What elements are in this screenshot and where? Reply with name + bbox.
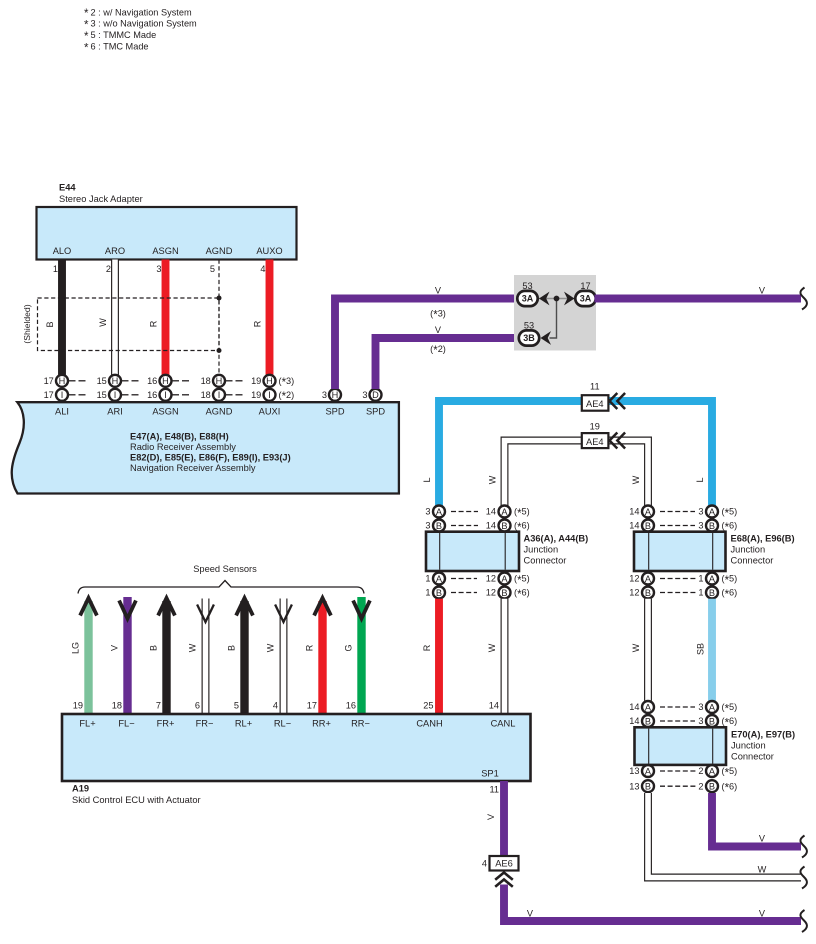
wire break mark bbox=[800, 910, 807, 932]
brace over speed sensor wires bbox=[78, 581, 364, 594]
arrow up on RL+ bbox=[236, 598, 253, 616]
wire R speed sensor RR+ bbox=[318, 601, 326, 714]
svg-text:A: A bbox=[645, 574, 652, 584]
svg-text:Connector: Connector bbox=[731, 752, 774, 762]
connector AE6 box bbox=[490, 856, 519, 871]
svg-text:13: 13 bbox=[629, 781, 639, 791]
dashed link bbox=[660, 525, 695, 527]
svg-text:W: W bbox=[98, 318, 108, 327]
wire L blue loop to AE4 11 bbox=[439, 401, 712, 506]
svg-text:Junction: Junction bbox=[731, 545, 766, 555]
svg-text:B: B bbox=[45, 321, 55, 327]
svg-text:*: * bbox=[84, 31, 89, 43]
svg-text:H: H bbox=[59, 376, 66, 386]
svg-text:V: V bbox=[110, 645, 120, 651]
svg-text:Navigation Receiver Assembly: Navigation Receiver Assembly bbox=[130, 463, 256, 473]
svg-text:A: A bbox=[709, 702, 716, 712]
svg-text:B: B bbox=[436, 521, 442, 531]
svg-text:A19: A19 bbox=[72, 784, 89, 794]
wire LG speed sensor FL+ bbox=[84, 601, 92, 714]
svg-text:RL+: RL+ bbox=[235, 719, 252, 729]
svg-text:1: 1 bbox=[698, 588, 703, 598]
svg-text:2: 2 bbox=[106, 264, 111, 274]
svg-text:14: 14 bbox=[489, 701, 499, 711]
wire break mark bbox=[800, 867, 807, 889]
svg-text:FR+: FR+ bbox=[157, 719, 175, 729]
svg-text:AE4: AE4 bbox=[586, 399, 604, 409]
junction dot shield top bbox=[217, 296, 222, 301]
svg-text:Junction: Junction bbox=[524, 545, 559, 555]
dashed link bbox=[660, 578, 698, 580]
dashed link H row bbox=[69, 380, 76, 382]
connector AE4 no.11 box bbox=[582, 395, 609, 411]
svg-text:3: 3 bbox=[698, 702, 703, 712]
svg-text:W: W bbox=[487, 643, 497, 652]
svg-text:15: 15 bbox=[97, 376, 107, 386]
arrow down on FR− bbox=[197, 605, 214, 623]
dashed link I row bbox=[122, 394, 129, 396]
svg-text:I: I bbox=[268, 390, 271, 400]
connector AE4 no.19 box bbox=[582, 433, 609, 448]
svg-text:12: 12 bbox=[629, 574, 639, 584]
svg-text:E47(A), E48(B), E88(H): E47(A), E48(B), E88(H) bbox=[130, 432, 229, 442]
dashed link I row bbox=[172, 394, 179, 396]
svg-text:7: 7 bbox=[156, 701, 161, 711]
svg-text:FR−: FR− bbox=[196, 719, 214, 729]
wire B speed sensor FR+ bbox=[162, 601, 170, 714]
wire SB skyblue E68 to E70 bbox=[708, 599, 716, 701]
connector oval 3A left bbox=[517, 291, 537, 306]
dashed link bbox=[451, 578, 477, 580]
svg-text:V: V bbox=[759, 909, 766, 919]
wire W white E70 to right edge bbox=[648, 793, 801, 878]
svg-text:17: 17 bbox=[44, 376, 54, 386]
svg-text:B: B bbox=[501, 588, 507, 598]
svg-text:A: A bbox=[436, 507, 443, 517]
svg-text:D: D bbox=[372, 390, 379, 400]
svg-text:A36(A), A44(B): A36(A), A44(B) bbox=[524, 534, 589, 544]
svg-text:17: 17 bbox=[307, 701, 317, 711]
svg-text:I: I bbox=[114, 390, 117, 400]
svg-text:3: 3 bbox=[362, 390, 367, 400]
dashed link bbox=[451, 511, 478, 513]
arrow up on FL+ bbox=[80, 598, 97, 616]
wire break mark bbox=[800, 288, 807, 310]
component E44 Stereo Jack Adapter box bbox=[37, 207, 297, 260]
svg-text:V: V bbox=[486, 814, 496, 820]
wire R red AUXO bbox=[266, 260, 274, 375]
svg-text:14: 14 bbox=[486, 521, 496, 531]
svg-text:Speed Sensors: Speed Sensors bbox=[193, 564, 257, 574]
svg-text:3A: 3A bbox=[522, 294, 534, 304]
svg-text:H: H bbox=[112, 376, 119, 386]
junction dot shield bottom bbox=[217, 348, 222, 353]
dashed link I row bbox=[69, 394, 76, 396]
svg-text:W: W bbox=[188, 643, 198, 652]
svg-text:I: I bbox=[218, 390, 221, 400]
svg-text:ARO: ARO bbox=[105, 246, 125, 256]
svg-text:18: 18 bbox=[112, 701, 122, 711]
svg-text:L: L bbox=[422, 477, 432, 482]
svg-text:14: 14 bbox=[486, 507, 496, 517]
svg-text:B: B bbox=[149, 645, 159, 651]
splice arrow into right 3A bbox=[564, 292, 575, 306]
dashed link H row bbox=[172, 380, 179, 382]
splice thin link lines bbox=[537, 298, 576, 300]
svg-text:12: 12 bbox=[629, 588, 639, 598]
wire B speed sensor RL+ bbox=[240, 601, 248, 714]
svg-text:2: 2 bbox=[698, 781, 703, 791]
svg-text:6: 6 bbox=[195, 701, 200, 711]
svg-text:1: 1 bbox=[53, 264, 58, 274]
svg-text:4: 4 bbox=[260, 264, 265, 274]
splice junction dot bbox=[554, 296, 560, 302]
svg-text:Connector: Connector bbox=[731, 556, 774, 566]
svg-text:Junction: Junction bbox=[731, 741, 766, 751]
svg-text:V: V bbox=[527, 909, 534, 919]
svg-text:Connector: Connector bbox=[524, 556, 567, 566]
wire W white ARO bbox=[111, 260, 119, 375]
svg-text:*: * bbox=[84, 42, 89, 54]
wire break mark bbox=[800, 836, 807, 858]
svg-text:AUXI: AUXI bbox=[259, 407, 281, 417]
svg-text:3: 3 bbox=[425, 507, 430, 517]
dashed link H row bbox=[226, 380, 233, 382]
svg-text:3: 3 bbox=[698, 521, 703, 531]
wire V purple E70 to right edge bbox=[712, 793, 801, 847]
svg-text:4: 4 bbox=[273, 701, 278, 711]
svg-text:3B: 3B bbox=[523, 333, 535, 343]
connector oval 3A right bbox=[575, 291, 595, 306]
svg-text:13: 13 bbox=[629, 766, 639, 776]
svg-text:53: 53 bbox=[524, 321, 534, 331]
svg-text:2 : w/ Navigation System: 2 : w/ Navigation System bbox=[91, 7, 192, 17]
svg-text:CANL: CANL bbox=[491, 719, 516, 729]
svg-text:5: 5 bbox=[234, 701, 239, 711]
svg-text:16: 16 bbox=[147, 390, 157, 400]
component A19 Skid Control ECU box bbox=[62, 714, 531, 781]
svg-text:14: 14 bbox=[629, 507, 639, 517]
wire W white A36 to CANL bbox=[501, 599, 509, 714]
dashed link bbox=[451, 525, 478, 527]
arrow up on FR+ bbox=[158, 598, 175, 616]
component E68 junction connector box bbox=[634, 532, 726, 571]
svg-text:A: A bbox=[645, 766, 652, 776]
wire G speed sensor RR− bbox=[357, 597, 365, 714]
svg-text:E82(D), E85(E), E86(F), E89(I): E82(D), E85(E), E86(F), E89(I), E93(J) bbox=[130, 453, 291, 463]
wire R red ASGN bbox=[162, 260, 170, 375]
svg-text:6 : TMC Made: 6 : TMC Made bbox=[91, 41, 149, 51]
svg-text:B: B bbox=[501, 521, 507, 531]
svg-text:B: B bbox=[645, 521, 651, 531]
svg-text:B: B bbox=[709, 716, 715, 726]
svg-text:W: W bbox=[266, 643, 276, 652]
component A36 junction connector box bbox=[426, 532, 519, 571]
svg-text:3: 3 bbox=[698, 716, 703, 726]
svg-text:19: 19 bbox=[251, 376, 261, 386]
svg-text:19: 19 bbox=[590, 422, 600, 432]
svg-text:18: 18 bbox=[201, 376, 211, 386]
svg-text:SPD: SPD bbox=[366, 407, 385, 417]
chevrons AE4 11 bbox=[610, 393, 618, 409]
svg-text:Skid Control ECU with Actuator: Skid Control ECU with Actuator bbox=[72, 795, 201, 805]
svg-text:RL−: RL− bbox=[274, 719, 291, 729]
wire W speed sensor RL− bbox=[280, 599, 288, 715]
svg-text:19: 19 bbox=[73, 701, 83, 711]
svg-text:A: A bbox=[709, 507, 716, 517]
dashed link bbox=[660, 592, 698, 594]
svg-text:17: 17 bbox=[44, 390, 54, 400]
svg-text:W: W bbox=[758, 865, 767, 875]
svg-text:SPD: SPD bbox=[325, 407, 344, 417]
svg-text:*: * bbox=[84, 20, 89, 32]
dashed link bbox=[660, 770, 698, 772]
junction splice block gray box bbox=[514, 275, 596, 351]
svg-text:A: A bbox=[709, 766, 716, 776]
dashed link bbox=[660, 706, 695, 708]
wire V purple SP1 down bbox=[500, 781, 508, 856]
svg-text:V: V bbox=[435, 286, 442, 296]
svg-text:RR+: RR+ bbox=[312, 719, 331, 729]
svg-text:A: A bbox=[709, 574, 716, 584]
svg-text:11: 11 bbox=[489, 785, 499, 795]
wire V purple SPD H to junction 3A bbox=[335, 299, 518, 390]
svg-text:ALO: ALO bbox=[53, 246, 72, 256]
svg-text:E68(A), E96(B): E68(A), E96(B) bbox=[731, 534, 795, 544]
svg-text:1: 1 bbox=[425, 574, 430, 584]
svg-text:5: 5 bbox=[210, 264, 215, 274]
svg-text:A: A bbox=[645, 507, 652, 517]
svg-text:ASGN: ASGN bbox=[152, 407, 178, 417]
wire V speed sensor FL− bbox=[123, 597, 131, 714]
component Radio/Navigation Receiver Assembly box bbox=[12, 402, 399, 493]
dashed link bbox=[451, 592, 477, 594]
svg-text:I: I bbox=[164, 390, 167, 400]
svg-text:G: G bbox=[344, 644, 354, 651]
svg-text:14: 14 bbox=[629, 702, 639, 712]
svg-text:E70(A), E97(B): E70(A), E97(B) bbox=[731, 730, 795, 740]
svg-text:5 : TMMC Made: 5 : TMMC Made bbox=[91, 30, 157, 40]
svg-text:12: 12 bbox=[486, 588, 496, 598]
svg-text:AGND: AGND bbox=[206, 246, 233, 256]
svg-text:ASGN: ASGN bbox=[152, 246, 178, 256]
wire V purple AE6 to right edge bbox=[504, 885, 801, 922]
svg-text:AE4: AE4 bbox=[586, 437, 604, 447]
svg-text:2: 2 bbox=[698, 766, 703, 776]
svg-text:R: R bbox=[149, 320, 159, 327]
svg-text:3: 3 bbox=[322, 390, 327, 400]
splice arrow into 3A left bbox=[539, 292, 550, 306]
svg-text:1: 1 bbox=[698, 574, 703, 584]
splice arrow into 3B bbox=[541, 331, 552, 345]
svg-text:V: V bbox=[759, 286, 766, 296]
wire W speed sensor FR− bbox=[202, 599, 210, 715]
dashed link bbox=[660, 785, 698, 787]
dashed link H row bbox=[122, 380, 129, 382]
svg-text:I: I bbox=[61, 390, 64, 400]
svg-text:11: 11 bbox=[590, 381, 600, 391]
svg-text:A: A bbox=[501, 574, 508, 584]
svg-text:E44: E44 bbox=[59, 183, 76, 193]
svg-text:CANH: CANH bbox=[416, 719, 442, 729]
wire V purple SPD D to junction 3B bbox=[376, 338, 520, 389]
wire B black ALO bbox=[58, 260, 66, 375]
dashed link bbox=[660, 511, 695, 513]
svg-text:1: 1 bbox=[425, 588, 430, 598]
svg-text:SP1: SP1 bbox=[481, 769, 499, 779]
svg-text:17: 17 bbox=[580, 281, 590, 291]
svg-text:B: B bbox=[645, 716, 651, 726]
svg-text:B: B bbox=[436, 588, 442, 598]
svg-text:V: V bbox=[759, 834, 766, 844]
svg-text:3 : w/o Navigation System: 3 : w/o Navigation System bbox=[91, 19, 198, 29]
svg-text:16: 16 bbox=[147, 376, 157, 386]
svg-text:B: B bbox=[645, 781, 651, 791]
component E70 junction connector box bbox=[635, 727, 727, 765]
svg-text:V: V bbox=[435, 325, 442, 335]
svg-text:ALI: ALI bbox=[55, 407, 69, 417]
svg-text:*: * bbox=[84, 8, 89, 20]
svg-text:18: 18 bbox=[201, 390, 211, 400]
arrow down on RL− bbox=[275, 605, 292, 623]
svg-text:15: 15 bbox=[97, 390, 107, 400]
svg-text:A: A bbox=[645, 702, 652, 712]
svg-text:16: 16 bbox=[346, 701, 356, 711]
dashed link bbox=[660, 720, 695, 722]
svg-text:Stereo Jack Adapter: Stereo Jack Adapter bbox=[59, 194, 143, 204]
chevrons AE4 19 bbox=[610, 433, 618, 449]
svg-text:25: 25 bbox=[423, 701, 433, 711]
svg-text:A: A bbox=[436, 574, 443, 584]
svg-text:W: W bbox=[488, 475, 498, 484]
svg-text:14: 14 bbox=[629, 716, 639, 726]
svg-text:L: L bbox=[695, 477, 705, 482]
svg-text:H: H bbox=[266, 376, 273, 386]
svg-text:R: R bbox=[253, 320, 263, 327]
svg-text:RR−: RR− bbox=[351, 719, 370, 729]
svg-text:AUXO: AUXO bbox=[256, 246, 282, 256]
svg-text:FL+: FL+ bbox=[79, 719, 95, 729]
svg-text:H: H bbox=[332, 390, 339, 400]
svg-text:W: W bbox=[631, 643, 641, 652]
svg-text:B: B bbox=[709, 521, 715, 531]
svg-text:A: A bbox=[501, 507, 508, 517]
svg-text:14: 14 bbox=[629, 521, 639, 531]
svg-text:AGND: AGND bbox=[206, 407, 233, 417]
svg-text:R: R bbox=[305, 644, 315, 651]
svg-text:FL−: FL− bbox=[118, 719, 134, 729]
wire V purple junction to right edge bbox=[595, 295, 802, 303]
dashed link I row bbox=[226, 394, 233, 396]
svg-text:3: 3 bbox=[425, 521, 430, 531]
svg-text:3A: 3A bbox=[580, 294, 592, 304]
svg-text:LG: LG bbox=[71, 642, 81, 654]
svg-text:R: R bbox=[422, 644, 432, 651]
arrow down on FL− bbox=[119, 601, 136, 619]
connector oval 3B bbox=[519, 330, 539, 345]
wire shield drain AGND dashed bbox=[218, 260, 220, 375]
svg-text:12: 12 bbox=[486, 574, 496, 584]
svg-text:3: 3 bbox=[698, 507, 703, 517]
svg-text:B: B bbox=[645, 588, 651, 598]
svg-text:(Shielded): (Shielded) bbox=[22, 304, 32, 343]
svg-text:B: B bbox=[709, 588, 715, 598]
svg-text:ARI: ARI bbox=[107, 407, 123, 417]
svg-text:19: 19 bbox=[251, 390, 261, 400]
chevrons AE6 up bbox=[495, 873, 513, 880]
svg-text:53: 53 bbox=[522, 281, 532, 291]
svg-text:SB: SB bbox=[696, 643, 706, 655]
svg-text:Radio Receiver Assembly: Radio Receiver Assembly bbox=[130, 442, 236, 452]
svg-text:B: B bbox=[709, 781, 715, 791]
svg-text:3: 3 bbox=[156, 264, 161, 274]
arrow down on RR− bbox=[353, 601, 370, 619]
svg-text:W: W bbox=[631, 475, 641, 484]
wire W white E68 to E70 bbox=[644, 599, 652, 701]
svg-text:B: B bbox=[227, 645, 237, 651]
svg-text:4: 4 bbox=[482, 859, 487, 869]
shield boundary dashed box bbox=[38, 298, 220, 351]
svg-text:H: H bbox=[216, 376, 223, 386]
svg-text:H: H bbox=[162, 376, 169, 386]
wire R red A36 to CANH bbox=[435, 599, 443, 714]
arrow up on RR+ bbox=[314, 598, 331, 616]
svg-text:AE6: AE6 bbox=[495, 859, 513, 869]
wire W white loop to AE4 19 bbox=[505, 441, 649, 506]
